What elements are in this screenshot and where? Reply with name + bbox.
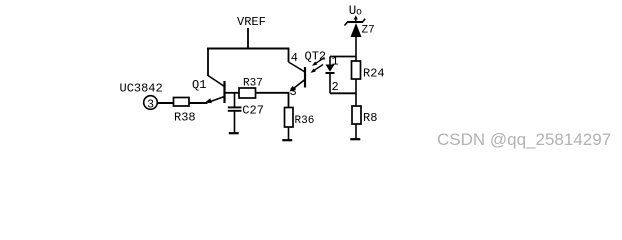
svg-text:R24: R24 — [363, 67, 385, 81]
light arrow 2 — [311, 65, 324, 73]
wire R8 to ground — [355, 124, 357, 139]
resistor R24 — [352, 61, 385, 81]
wire Q1 base to R37 — [226, 92, 240, 94]
ground (R36) — [282, 139, 292, 141]
wire zener to R24 — [355, 37, 357, 61]
capacitor C27 — [228, 93, 264, 132]
svg-text:R36: R36 — [295, 115, 315, 127]
output arrow — [354, 15, 358, 22]
VREF stem wire — [247, 28, 249, 49]
wire LED pin2 to column — [330, 92, 357, 94]
wire R37 to node 3 — [256, 92, 290, 94]
svg-text:R38: R38 — [174, 111, 196, 125]
light arrow 1 — [312, 58, 325, 66]
svg-text:3: 3 — [290, 85, 297, 99]
top rail wire — [207, 48, 289, 50]
wire node3 down to R36 — [288, 93, 290, 108]
svg-text:CSDN @qq_25814297: CSDN @qq_25814297 — [437, 130, 611, 149]
ground (C27) — [229, 132, 239, 134]
resistor R8 — [352, 106, 377, 125]
transistor Q1 — [192, 76, 225, 104]
wire rail to opto pin 4 — [288, 49, 290, 63]
wire pin3 to R38 — [157, 102, 174, 104]
net label Uo — [349, 4, 362, 19]
svg-text:4: 4 — [291, 51, 298, 65]
svg-text:o: o — [356, 8, 362, 19]
opto phototransistor — [289, 62, 306, 92]
resistor R37 — [239, 78, 263, 99]
ground (R8) — [350, 138, 360, 140]
svg-text:QT2: QT2 — [305, 50, 327, 64]
opto LED pin1 wire — [330, 56, 357, 58]
svg-text:R8: R8 — [363, 111, 377, 125]
svg-text:VREF: VREF — [237, 15, 266, 29]
svg-text:Q1: Q1 — [192, 78, 206, 92]
svg-text:2: 2 — [332, 80, 339, 94]
resistor R36 — [285, 108, 315, 128]
zener Z7 — [345, 19, 366, 37]
wire Q1 collector to rail — [207, 49, 209, 77]
wire R24 to R8 — [355, 79, 357, 106]
resistor R38 — [174, 98, 196, 125]
svg-text:Z7: Z7 — [362, 25, 375, 37]
wire R36 to ground — [288, 127, 290, 140]
svg-text:3: 3 — [147, 98, 154, 111]
opto LED — [326, 57, 335, 94]
svg-text:UC3842: UC3842 — [120, 82, 163, 96]
svg-text:C27: C27 — [242, 104, 264, 118]
wire R38 to Q1 emitter — [189, 102, 208, 104]
pin 3 terminal circle — [144, 96, 158, 112]
